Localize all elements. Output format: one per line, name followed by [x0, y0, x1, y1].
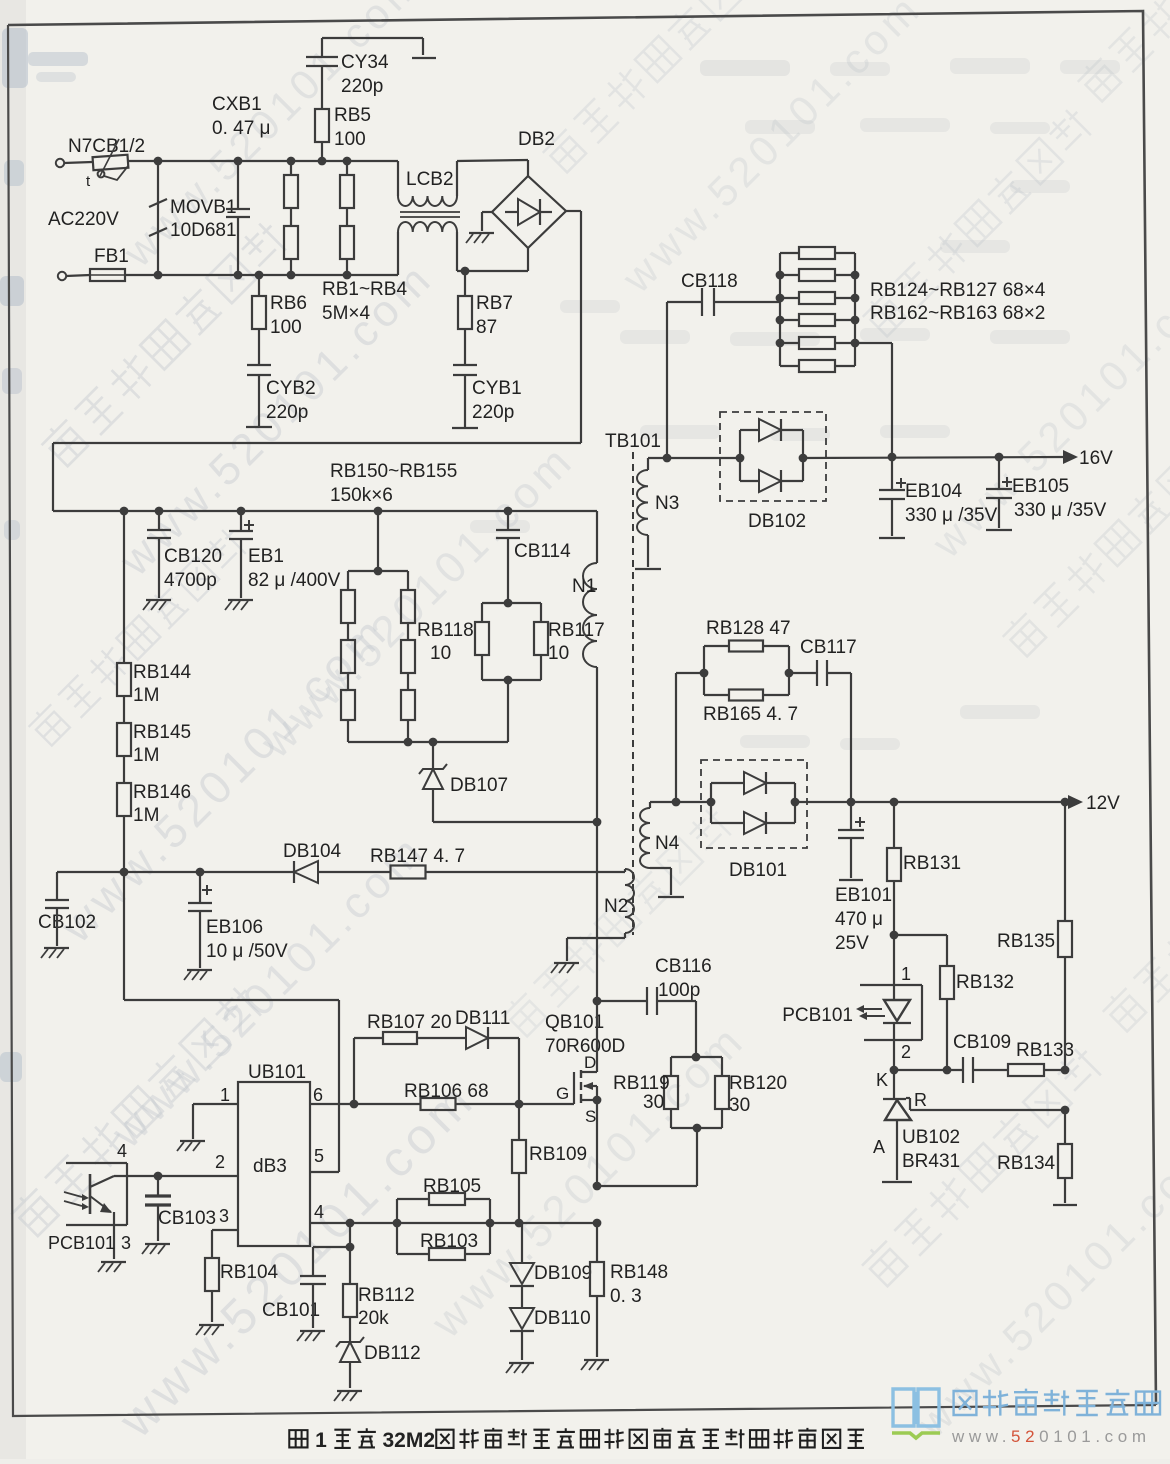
rectifier DB101	[701, 760, 807, 881]
resistor RB7	[458, 267, 513, 365]
wire N3 node to DB102	[648, 454, 744, 463]
resistor RB106	[350, 1081, 524, 1110]
svg-text:EB101: EB101	[835, 885, 892, 906]
svg-text:CB102: CB102	[38, 912, 96, 933]
resistor RB163	[780, 360, 855, 372]
ground CB101	[297, 1331, 325, 1341]
svg-text:RB147 4. 7: RB147 4. 7	[370, 846, 465, 867]
diode DB107 zener	[419, 742, 601, 826]
svg-text:RB165 4. 7: RB165 4. 7	[703, 704, 798, 725]
resistor RB4 (col2 lower)	[340, 208, 354, 279]
resistor RB125	[776, 269, 860, 281]
winding N2	[567, 869, 634, 961]
resistor RB162	[776, 337, 860, 349]
svg-text:AC220V: AC220V	[48, 209, 119, 230]
svg-text:CB103: CB103	[158, 1208, 216, 1229]
optocoupler PCB101 LED	[782, 935, 922, 1070]
svg-text:0. 3: 0. 3	[610, 1286, 642, 1307]
svg-text:DB110: DB110	[534, 1308, 591, 1329]
svg-text:RB5: RB5	[334, 105, 371, 126]
svg-text:RB135: RB135	[997, 931, 1055, 952]
svg-text:20k: 20k	[358, 1308, 389, 1329]
capacitor EB1 electrolytic	[229, 507, 341, 598]
svg-text:RB104: RB104	[220, 1262, 279, 1283]
svg-text:87: 87	[476, 317, 497, 338]
svg-text:5M×4: 5M×4	[322, 303, 370, 324]
svg-text:DB102: DB102	[748, 511, 806, 532]
svg-text:6: 6	[313, 1085, 323, 1105]
wire stack to 16V rail	[855, 343, 892, 457]
svg-text:QB101: QB101	[545, 1012, 604, 1033]
svg-text:N2: N2	[604, 896, 628, 917]
capacitor EB106 electrolytic	[188, 872, 288, 968]
svg-text:220p: 220p	[472, 402, 514, 423]
svg-text:220p: 220p	[341, 76, 383, 97]
capacitor CB114	[496, 507, 571, 603]
wire snubber feedback rail	[57, 868, 625, 877]
shunt regulator UB102 BR431	[873, 1070, 960, 1180]
resistor RB151	[341, 623, 355, 673]
resistor RB1 (col1 upper)	[284, 157, 298, 208]
optocoupler PCB101 phototransistor	[48, 1141, 131, 1259]
caption text	[289, 1428, 864, 1452]
svg-text:CYB1: CYB1	[472, 378, 522, 399]
resistor RB146	[117, 756, 191, 872]
svg-text:N7CB1/2: N7CB1/2	[68, 136, 145, 157]
ground DB109 DB110	[506, 1363, 534, 1373]
svg-text:DB111: DB111	[455, 1008, 510, 1029]
svg-text:UB102: UB102	[902, 1127, 960, 1148]
ground CB103	[142, 1244, 170, 1254]
svg-text:RB106 68: RB106 68	[404, 1081, 489, 1102]
svg-text:TB101: TB101	[605, 431, 661, 452]
svg-text:82 μ /400V: 82 μ /400V	[248, 570, 341, 591]
wire R reference	[906, 1098, 1069, 1114]
resistor RB132	[894, 935, 1014, 1070]
svg-text:DB109: DB109	[534, 1263, 592, 1284]
chassis stub	[412, 57, 436, 59]
op-amp U controller UB101	[238, 1062, 310, 1246]
svg-text:RB146: RB146	[133, 782, 191, 803]
svg-text:RB148: RB148	[610, 1262, 668, 1283]
svg-text:RB7: RB7	[476, 293, 513, 314]
capacitor CB109	[953, 1032, 1011, 1083]
capacitor CB101	[262, 1223, 354, 1328]
svg-text:RB162~RB163 68×2: RB162~RB163 68×2	[870, 303, 1045, 324]
svg-text:MOVB1: MOVB1	[170, 197, 237, 218]
resistor RB126	[776, 292, 860, 304]
ground CB102	[41, 948, 69, 958]
wire snubber to source	[593, 1109, 722, 1190]
choke LCB2	[398, 161, 460, 275]
resistor RB153	[401, 571, 415, 623]
svg-text:25V: 25V	[835, 933, 869, 954]
wire bus to RB150 columns	[348, 507, 408, 576]
resistor RB109	[512, 1104, 587, 1223]
svg-text:D: D	[584, 1053, 596, 1072]
svg-text:www.520101.com: www.520101.com	[951, 1427, 1151, 1446]
capacitor EB105 electrolytic	[986, 457, 1107, 528]
svg-text:RB128 47: RB128 47	[706, 618, 791, 639]
svg-text:CB118: CB118	[681, 271, 738, 292]
svg-text:220p: 220p	[266, 402, 308, 423]
resistor RB6	[252, 271, 307, 365]
svg-text:16V: 16V	[1079, 448, 1113, 469]
ground RB148	[581, 1360, 609, 1370]
pin 3	[212, 1206, 238, 1258]
svg-text:R: R	[914, 1090, 927, 1110]
svg-text:EB105: EB105	[1012, 476, 1069, 497]
svg-text:LCB2: LCB2	[406, 169, 454, 190]
svg-text:100p: 100p	[658, 980, 700, 1001]
wire RB128 node down	[676, 673, 704, 802]
resistor RB103	[397, 1223, 490, 1260]
ground EB101	[839, 879, 863, 881]
resistor RB104	[205, 1258, 279, 1322]
svg-text:150k×6: 150k×6	[330, 485, 393, 506]
logo site name	[951, 1389, 1160, 1446]
svg-text:BR431: BR431	[902, 1151, 960, 1172]
resistor RB5	[315, 105, 371, 165]
svg-text:RB131: RB131	[903, 853, 961, 874]
resistor RB150	[341, 571, 355, 623]
ground EB1	[225, 600, 253, 610]
svg-text:12V: 12V	[1086, 793, 1120, 814]
wire pin4 rail	[346, 1219, 602, 1228]
resistor RB120	[715, 1057, 787, 1116]
svg-text:EB106: EB106	[206, 917, 263, 938]
svg-text:1M: 1M	[133, 745, 159, 766]
svg-text:2: 2	[215, 1152, 225, 1172]
ground CB120	[143, 600, 171, 610]
pin 1	[193, 1085, 238, 1139]
wire bridge AC2 to earth	[482, 212, 492, 231]
capacitor CY34	[306, 38, 389, 109]
winding N3	[637, 458, 679, 567]
svg-text:FB1: FB1	[94, 246, 129, 267]
diode DB109	[510, 1223, 592, 1286]
resistor RB144	[117, 507, 192, 706]
diode DB110	[510, 1285, 591, 1360]
resistor RB152	[341, 673, 355, 720]
svg-text:4: 4	[117, 1141, 127, 1161]
varistor MOVB1	[149, 157, 237, 280]
label RB150-RB155	[330, 461, 457, 506]
winding N4	[640, 802, 680, 895]
svg-text:UB101: UB101	[248, 1062, 306, 1083]
wire N bottom rail	[125, 274, 398, 276]
label RB124-RB127	[870, 280, 1046, 301]
ground EB105	[986, 529, 1012, 531]
resistor RB112	[343, 1247, 415, 1341]
resistor RB127	[776, 314, 860, 326]
winding N1	[572, 511, 597, 667]
svg-text:RB105: RB105	[423, 1176, 481, 1197]
resistor RB117	[482, 603, 605, 684]
svg-text:RB120: RB120	[729, 1073, 787, 1094]
svg-text:1: 1	[315, 1429, 327, 1452]
svg-text:CY34: CY34	[341, 52, 389, 73]
svg-text:330 μ /35V: 330 μ /35V	[1014, 500, 1107, 521]
capacitor CB116	[597, 956, 712, 1057]
capacitor CB103	[145, 1172, 216, 1241]
svg-text:CB114: CB114	[514, 541, 571, 562]
wire	[64, 162, 92, 163]
svg-text:RB118: RB118	[417, 620, 474, 641]
svg-text:RB124~RB127 68×4: RB124~RB127 68×4	[870, 280, 1046, 301]
resistor RB133	[1008, 1040, 1074, 1076]
resistor RB145	[117, 696, 191, 766]
ground RB104	[196, 1325, 224, 1335]
svg-text:N3: N3	[655, 493, 679, 514]
svg-text:RB6: RB6	[270, 293, 307, 314]
svg-text:dB3: dB3	[253, 1156, 287, 1177]
capacitor CYB1	[453, 365, 522, 427]
svg-text:DB107: DB107	[450, 775, 508, 796]
svg-text:RB109: RB109	[529, 1144, 587, 1165]
label RB1-RB4	[322, 279, 407, 324]
bridge rectifier DB2	[492, 129, 566, 248]
svg-text:5: 5	[314, 1146, 324, 1166]
svg-text:RB112: RB112	[358, 1285, 415, 1306]
capacitor CB118	[667, 271, 780, 458]
node 12V	[1068, 793, 1120, 814]
svg-text:K: K	[876, 1070, 888, 1090]
resistor RB147	[370, 846, 465, 879]
resistor RB128	[704, 618, 791, 673]
svg-text:EB104: EB104	[905, 481, 962, 502]
svg-text:100: 100	[334, 129, 366, 150]
svg-text:S: S	[585, 1107, 596, 1126]
pin 5	[310, 1146, 339, 1172]
wire LCB2 to bridge top	[457, 160, 528, 176]
svg-text:4700p: 4700p	[164, 570, 217, 591]
svg-text:CB120: CB120	[164, 546, 222, 567]
svg-text:RB117: RB117	[548, 620, 605, 641]
resistor RB155	[401, 673, 415, 720]
svg-text:100: 100	[270, 317, 302, 338]
svg-text:DB112: DB112	[364, 1343, 421, 1364]
pin 4	[310, 1202, 350, 1223]
svg-text:EB1: EB1	[248, 546, 284, 567]
resistor RB107	[354, 1012, 466, 1044]
svg-text:1: 1	[901, 964, 911, 984]
ground CYB2	[246, 426, 272, 428]
resistor RB105	[397, 1176, 490, 1223]
print-through smears	[470, 58, 1120, 750]
wire N1 to drain	[596, 667, 598, 1001]
resistor RB165	[700, 646, 798, 725]
wire LCB2 to bridge bottom	[457, 248, 528, 271]
svg-text:DB104: DB104	[283, 841, 342, 862]
svg-text:RB107 20: RB107 20	[367, 1012, 452, 1033]
wire	[66, 275, 90, 276]
capacitor CB117	[789, 637, 857, 802]
label AC220V	[48, 209, 119, 230]
svg-text:DB101: DB101	[729, 860, 787, 881]
svg-text:10D681: 10D681	[170, 220, 237, 241]
transistor QB101 MOSFET	[519, 997, 625, 1186]
ground N3	[635, 568, 661, 570]
transformer core TB101	[605, 431, 661, 935]
svg-text:32M2: 32M2	[383, 1429, 436, 1452]
svg-text:1: 1	[220, 1085, 230, 1105]
svg-text:PCB101: PCB101	[48, 1233, 115, 1253]
svg-text:A: A	[873, 1137, 885, 1157]
svg-text:RB150~RB155: RB150~RB155	[330, 461, 457, 482]
resistor RB148	[590, 1223, 668, 1357]
svg-text:CYB2: CYB2	[266, 378, 316, 399]
rectifier DB102	[720, 412, 826, 532]
capacitor EB101 electrolytic	[835, 802, 892, 954]
ground pin1	[177, 1141, 205, 1151]
ground CYB1	[452, 427, 478, 429]
capacitor CYB2	[247, 365, 316, 426]
thermistor N7CB1/2	[68, 136, 145, 190]
logo book icon	[892, 1389, 940, 1438]
diode DB112 zener	[336, 1337, 421, 1388]
resistor RB135	[997, 802, 1072, 1074]
svg-text:CB109: CB109	[953, 1032, 1011, 1053]
svg-text:RB1~RB4: RB1~RB4	[322, 279, 407, 300]
resistor RB3 (col2 upper)	[340, 157, 354, 208]
svg-text:RB144: RB144	[133, 662, 192, 683]
resistor RB154	[401, 623, 415, 673]
svg-text:330 μ /35V: 330 μ /35V	[905, 505, 998, 526]
svg-text:2: 2	[901, 1042, 911, 1062]
capacitor EB104 electrolytic	[879, 457, 998, 536]
ground N4	[658, 896, 684, 898]
resistor RB134	[997, 1110, 1072, 1203]
svg-text:10 μ /50V: 10 μ /50V	[206, 941, 288, 962]
capacitor CB120	[147, 507, 222, 598]
svg-text:G: G	[556, 1084, 569, 1103]
wire 16V rail	[799, 453, 1063, 463]
wire N4 node	[650, 798, 715, 807]
resistor RB119	[613, 1053, 722, 1113]
capacitor CXB1	[212, 94, 270, 279]
resistor RB118	[417, 599, 541, 664]
wire CY34 to stub	[322, 38, 423, 55]
scan smudges left edge	[0, 28, 88, 1082]
diode DB111	[354, 1008, 519, 1104]
pin 6	[310, 1085, 354, 1105]
svg-text:DB2: DB2	[518, 129, 555, 150]
svg-text:CB117: CB117	[800, 637, 857, 658]
svg-text:N4: N4	[655, 833, 680, 854]
ground UB102	[882, 1181, 912, 1183]
wire L top rail	[128, 160, 398, 162]
svg-text:RB132: RB132	[956, 972, 1014, 993]
label RB162-RB163	[870, 303, 1045, 324]
ground EB104	[879, 537, 905, 539]
svg-text:30: 30	[643, 1092, 664, 1113]
resistor RB131	[887, 802, 961, 939]
svg-text:N1: N1	[572, 576, 596, 597]
ground EB106	[184, 970, 212, 980]
ground DB112	[334, 1391, 362, 1401]
wire bridge+ to HV bus	[53, 211, 581, 511]
diode DB104	[283, 841, 342, 883]
terminal N input	[58, 272, 66, 280]
svg-text:4: 4	[314, 1202, 324, 1222]
wire RB columns bottom	[348, 680, 508, 746]
svg-text:CB101: CB101	[262, 1300, 320, 1321]
ground N2	[551, 963, 579, 973]
node 16V	[1063, 448, 1113, 469]
svg-text:470 μ: 470 μ	[835, 909, 883, 930]
resistor RB124	[780, 247, 855, 259]
ground earth at bridge	[466, 233, 494, 243]
svg-text:10: 10	[548, 643, 569, 664]
ground PCB101 emitter	[98, 1262, 126, 1272]
fuse FB1	[90, 246, 129, 281]
svg-text:1M: 1M	[133, 685, 159, 706]
svg-text:CXB1: CXB1	[212, 94, 262, 115]
capacitor CB102	[38, 872, 96, 946]
node K wire	[876, 1066, 963, 1090]
resistor RB2 (col1 lower)	[284, 208, 298, 279]
ground RB134	[1053, 1204, 1077, 1206]
svg-text:1M: 1M	[133, 805, 159, 826]
pin 2	[114, 1152, 238, 1176]
svg-text:0. 47 μ: 0. 47 μ	[212, 118, 270, 139]
svg-text:RB119: RB119	[613, 1073, 670, 1094]
terminal L input	[56, 159, 64, 167]
svg-text:30: 30	[729, 1095, 750, 1116]
svg-text:3: 3	[219, 1206, 229, 1226]
svg-text:3: 3	[121, 1233, 131, 1253]
svg-text:RB134: RB134	[997, 1153, 1056, 1174]
svg-text:10: 10	[430, 643, 451, 664]
svg-text:CB116: CB116	[655, 956, 712, 977]
wire feedback to UB101 pin5	[124, 872, 339, 1172]
wire RB stack rails	[780, 253, 855, 366]
svg-text:PCB101: PCB101	[782, 1005, 853, 1026]
svg-text:RB103: RB103	[420, 1231, 478, 1252]
wire 12V rail	[791, 798, 1070, 807]
svg-text:RB145: RB145	[133, 722, 191, 743]
wire HV bus	[53, 510, 597, 512]
